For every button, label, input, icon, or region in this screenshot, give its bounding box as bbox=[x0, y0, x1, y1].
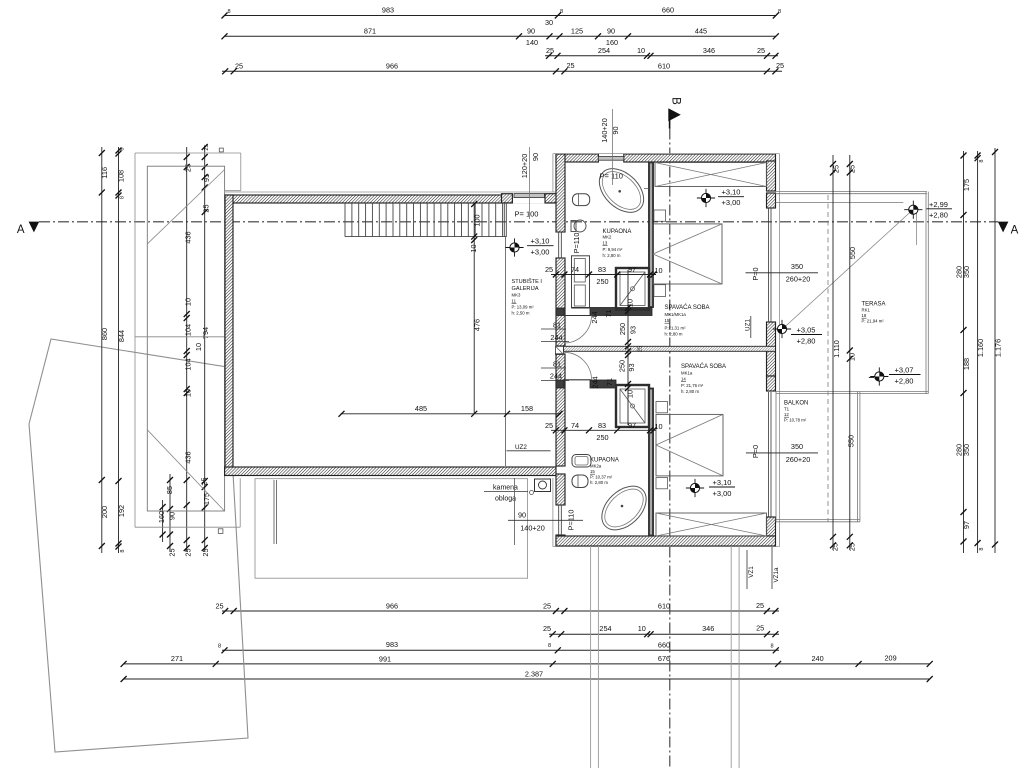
svg-text:P: 10,78 m²: P: 10,78 m² bbox=[784, 418, 807, 423]
svg-text:GALERIJA: GALERIJA bbox=[512, 286, 539, 292]
svg-text:P=0: P=0 bbox=[751, 267, 760, 280]
svg-text:25: 25 bbox=[757, 46, 765, 55]
svg-text:90: 90 bbox=[531, 153, 540, 161]
svg-text:200: 200 bbox=[100, 506, 109, 518]
svg-text:+2,99: +2,99 bbox=[929, 200, 948, 209]
svg-text:VZ1a: VZ1a bbox=[773, 567, 780, 583]
svg-text:10: 10 bbox=[626, 299, 635, 307]
svg-text:436: 436 bbox=[184, 451, 193, 463]
svg-text:97: 97 bbox=[628, 421, 636, 430]
svg-text:660: 660 bbox=[658, 641, 670, 650]
svg-text:h: 2,80 m: h: 2,80 m bbox=[590, 480, 608, 485]
svg-text:10: 10 bbox=[637, 46, 645, 55]
svg-text:966: 966 bbox=[386, 62, 398, 71]
svg-text:476: 476 bbox=[473, 319, 482, 331]
svg-text:10: 10 bbox=[469, 244, 478, 252]
svg-text:25: 25 bbox=[215, 602, 223, 611]
svg-text:+3,10: +3,10 bbox=[722, 188, 741, 197]
svg-text:8: 8 bbox=[979, 159, 985, 162]
svg-text:h: 2,80 m: h: 2,80 m bbox=[603, 253, 621, 258]
svg-text:25: 25 bbox=[184, 164, 193, 172]
svg-text:+3,00: +3,00 bbox=[713, 489, 732, 498]
svg-text:+3,00: +3,00 bbox=[722, 198, 741, 207]
svg-text:MK2: MK2 bbox=[603, 235, 612, 240]
svg-text:P=110: P=110 bbox=[572, 233, 581, 254]
svg-text:P= 100: P= 100 bbox=[515, 209, 539, 218]
svg-text:25: 25 bbox=[543, 602, 551, 611]
svg-text:966: 966 bbox=[386, 602, 398, 611]
svg-text:25: 25 bbox=[545, 421, 553, 430]
svg-text:+3,07: +3,07 bbox=[895, 366, 914, 375]
svg-text:244: 244 bbox=[550, 371, 562, 380]
svg-text:90: 90 bbox=[607, 27, 615, 36]
svg-text:11: 11 bbox=[512, 299, 517, 304]
svg-text:25: 25 bbox=[184, 548, 193, 556]
svg-text:25: 25 bbox=[776, 61, 784, 70]
svg-text:+3,10: +3,10 bbox=[531, 237, 550, 246]
svg-text:140+20: 140+20 bbox=[600, 118, 609, 143]
svg-text:116: 116 bbox=[100, 167, 109, 179]
svg-text:10: 10 bbox=[654, 266, 662, 275]
svg-text:610: 610 bbox=[658, 602, 670, 611]
svg-text:280: 280 bbox=[954, 266, 963, 278]
svg-text:610: 610 bbox=[658, 62, 670, 71]
svg-text:25: 25 bbox=[566, 61, 574, 70]
svg-text:240: 240 bbox=[812, 654, 824, 663]
svg-text:25: 25 bbox=[848, 543, 857, 551]
svg-text:485: 485 bbox=[415, 404, 427, 413]
svg-text:175: 175 bbox=[202, 493, 211, 505]
svg-text:104: 104 bbox=[184, 324, 193, 336]
svg-text:+2,80: +2,80 bbox=[797, 337, 816, 346]
svg-text:P: 21,94 m²: P: 21,94 m² bbox=[862, 319, 885, 324]
svg-text:188: 188 bbox=[962, 358, 971, 370]
svg-text:97: 97 bbox=[628, 265, 636, 274]
svg-text:25: 25 bbox=[200, 477, 209, 485]
svg-text:8: 8 bbox=[120, 549, 126, 552]
svg-text:+3,00: +3,00 bbox=[531, 248, 550, 257]
svg-text:844: 844 bbox=[117, 330, 126, 342]
svg-text:+3,05: +3,05 bbox=[797, 326, 816, 335]
svg-text:P: 21,76 m²: P: 21,76 m² bbox=[681, 383, 704, 388]
svg-text:85: 85 bbox=[165, 486, 174, 494]
svg-text:250: 250 bbox=[618, 360, 627, 372]
svg-text:280: 280 bbox=[954, 444, 963, 456]
svg-text:15: 15 bbox=[665, 318, 670, 323]
svg-text:h: 2,50 m: h: 2,50 m bbox=[512, 311, 530, 316]
svg-text:SPAVAĆA SOBA: SPAVAĆA SOBA bbox=[665, 304, 710, 311]
svg-text:244: 244 bbox=[550, 333, 562, 342]
svg-text:90: 90 bbox=[527, 27, 535, 36]
svg-text:2.387: 2.387 bbox=[525, 669, 543, 678]
svg-text:1.110: 1.110 bbox=[832, 340, 841, 358]
svg-text:8: 8 bbox=[227, 9, 230, 15]
svg-text:+2,80: +2,80 bbox=[929, 211, 948, 220]
svg-text:254: 254 bbox=[598, 46, 610, 55]
svg-text:550: 550 bbox=[847, 435, 856, 447]
svg-text:T1: T1 bbox=[784, 407, 790, 412]
svg-text:A: A bbox=[17, 224, 25, 236]
svg-text:+2,80: +2,80 bbox=[895, 377, 914, 386]
svg-text:350: 350 bbox=[791, 442, 803, 451]
svg-text:30: 30 bbox=[545, 18, 553, 27]
svg-text:10: 10 bbox=[194, 343, 203, 351]
svg-text:71: 71 bbox=[604, 309, 613, 317]
svg-text:obloga: obloga bbox=[495, 496, 516, 503]
svg-text:P= 110: P= 110 bbox=[600, 172, 623, 181]
svg-text:244: 244 bbox=[590, 311, 599, 323]
svg-text:8: 8 bbox=[120, 196, 126, 199]
svg-text:100: 100 bbox=[473, 214, 482, 226]
svg-text:8: 8 bbox=[560, 9, 563, 15]
svg-text:18: 18 bbox=[862, 313, 867, 318]
svg-text:25: 25 bbox=[201, 548, 210, 556]
svg-text:794: 794 bbox=[201, 327, 210, 339]
svg-text:160: 160 bbox=[157, 511, 166, 523]
svg-text:+3,10: +3,10 bbox=[713, 478, 732, 487]
svg-text:25: 25 bbox=[543, 624, 551, 633]
svg-text:VZ1: VZ1 bbox=[748, 566, 755, 578]
svg-text:25: 25 bbox=[756, 601, 764, 610]
svg-text:244: 244 bbox=[591, 376, 600, 388]
svg-text:250: 250 bbox=[596, 277, 608, 286]
svg-text:260+20: 260+20 bbox=[786, 455, 811, 464]
svg-text:B: B bbox=[670, 97, 682, 105]
svg-text:10: 10 bbox=[638, 624, 646, 633]
svg-text:h: 2,80 m: h: 2,80 m bbox=[665, 331, 683, 336]
svg-text:81: 81 bbox=[553, 359, 561, 368]
svg-text:12: 12 bbox=[784, 412, 789, 417]
svg-text:991: 991 bbox=[379, 654, 391, 663]
svg-text:346: 346 bbox=[702, 624, 714, 633]
svg-text:8: 8 bbox=[979, 547, 985, 550]
svg-text:271: 271 bbox=[171, 654, 183, 663]
svg-text:90: 90 bbox=[518, 511, 526, 520]
svg-text:93: 93 bbox=[629, 326, 638, 334]
svg-text:MK3: MK3 bbox=[512, 293, 521, 298]
svg-text:8: 8 bbox=[778, 9, 781, 15]
svg-text:25: 25 bbox=[831, 165, 840, 173]
svg-text:P: 13,09 m²: P: 13,09 m² bbox=[512, 305, 535, 310]
svg-text:8: 8 bbox=[218, 644, 221, 650]
svg-text:P: 10,37 m²: P: 10,37 m² bbox=[590, 475, 613, 480]
svg-text:1.160: 1.160 bbox=[976, 339, 985, 357]
svg-text:25: 25 bbox=[546, 46, 554, 55]
svg-text:108: 108 bbox=[117, 170, 126, 182]
svg-text:81: 81 bbox=[553, 320, 561, 329]
svg-text:10: 10 bbox=[654, 422, 662, 431]
svg-text:8: 8 bbox=[120, 147, 126, 150]
svg-text:25: 25 bbox=[545, 265, 553, 274]
svg-text:350: 350 bbox=[791, 262, 803, 271]
svg-text:25: 25 bbox=[201, 204, 210, 212]
svg-text:983: 983 bbox=[386, 640, 398, 649]
svg-text:125: 125 bbox=[571, 27, 583, 36]
svg-text:254: 254 bbox=[599, 624, 611, 633]
svg-text:P:21,31 m²: P:21,31 m² bbox=[665, 325, 687, 330]
svg-text:260+20: 260+20 bbox=[786, 275, 811, 284]
svg-text:74: 74 bbox=[571, 265, 579, 274]
svg-text:660: 660 bbox=[662, 6, 674, 15]
svg-text:STUBIŠTE I: STUBIŠTE I bbox=[512, 278, 543, 285]
svg-text:15: 15 bbox=[590, 469, 595, 474]
svg-text:104: 104 bbox=[184, 358, 193, 370]
svg-text:25: 25 bbox=[235, 62, 243, 71]
svg-text:983: 983 bbox=[382, 6, 394, 15]
svg-text:209: 209 bbox=[885, 654, 897, 663]
svg-text:13: 13 bbox=[603, 241, 608, 246]
svg-text:25: 25 bbox=[638, 346, 644, 352]
svg-text:25: 25 bbox=[756, 624, 764, 633]
svg-text:14: 14 bbox=[681, 377, 686, 382]
svg-text:90: 90 bbox=[168, 512, 177, 520]
svg-text:25: 25 bbox=[204, 144, 210, 150]
svg-text:1.176: 1.176 bbox=[993, 339, 1002, 357]
svg-text:RK1: RK1 bbox=[862, 308, 871, 313]
svg-text:25: 25 bbox=[831, 543, 840, 551]
svg-text:250: 250 bbox=[618, 323, 627, 335]
svg-text:25: 25 bbox=[848, 165, 857, 173]
svg-text:A: A bbox=[1011, 224, 1019, 236]
svg-text:MK2a: MK2a bbox=[590, 464, 602, 469]
svg-text:MK1/MK1a: MK1/MK1a bbox=[665, 312, 687, 317]
svg-text:74: 74 bbox=[571, 421, 579, 430]
svg-text:158: 158 bbox=[521, 404, 533, 413]
svg-text:83: 83 bbox=[598, 265, 606, 274]
svg-text:P: 9,94 m²: P: 9,94 m² bbox=[603, 247, 623, 252]
svg-text:250: 250 bbox=[596, 433, 608, 442]
svg-text:175: 175 bbox=[962, 179, 971, 191]
svg-text:10: 10 bbox=[184, 389, 193, 397]
svg-text:120+20: 120+20 bbox=[520, 154, 529, 179]
svg-text:140: 140 bbox=[526, 38, 538, 47]
svg-text:860: 860 bbox=[100, 328, 109, 340]
svg-text:93: 93 bbox=[627, 363, 636, 371]
svg-text:MK1a: MK1a bbox=[681, 371, 693, 376]
svg-text:8: 8 bbox=[770, 644, 773, 650]
svg-text:192: 192 bbox=[117, 505, 126, 517]
svg-text:436: 436 bbox=[184, 231, 193, 243]
svg-text:97: 97 bbox=[962, 521, 971, 529]
svg-text:10: 10 bbox=[184, 298, 193, 306]
svg-text:SPAVAĆA SOBA: SPAVAĆA SOBA bbox=[681, 363, 726, 370]
svg-text:140+20: 140+20 bbox=[520, 524, 545, 533]
svg-text:346: 346 bbox=[703, 46, 715, 55]
svg-text:445: 445 bbox=[695, 27, 707, 36]
svg-text:25: 25 bbox=[168, 548, 177, 556]
svg-text:10: 10 bbox=[626, 390, 635, 398]
svg-text:UZ2: UZ2 bbox=[515, 444, 527, 451]
svg-text:871: 871 bbox=[364, 27, 376, 36]
svg-text:P=0: P=0 bbox=[751, 445, 760, 458]
svg-text:8: 8 bbox=[548, 643, 551, 649]
svg-text:71: 71 bbox=[605, 378, 614, 386]
svg-text:91: 91 bbox=[202, 174, 211, 182]
svg-text:83: 83 bbox=[598, 421, 606, 430]
svg-text:550: 550 bbox=[848, 247, 857, 259]
svg-text:10: 10 bbox=[848, 353, 857, 361]
svg-text:h: 2,80 m: h: 2,80 m bbox=[681, 389, 699, 394]
svg-text:90: 90 bbox=[611, 126, 620, 134]
svg-text:676: 676 bbox=[658, 654, 670, 663]
